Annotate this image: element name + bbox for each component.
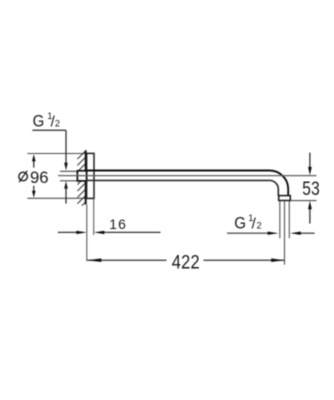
- svg-text:422: 422: [172, 251, 200, 273]
- svg-text:96: 96: [30, 168, 49, 187]
- svg-text:53: 53: [302, 177, 320, 199]
- svg-text:G: G: [33, 113, 45, 131]
- svg-text:G: G: [234, 215, 246, 233]
- svg-text:16: 16: [109, 216, 127, 232]
- svg-text:2: 2: [55, 118, 60, 128]
- svg-text:2: 2: [257, 221, 262, 231]
